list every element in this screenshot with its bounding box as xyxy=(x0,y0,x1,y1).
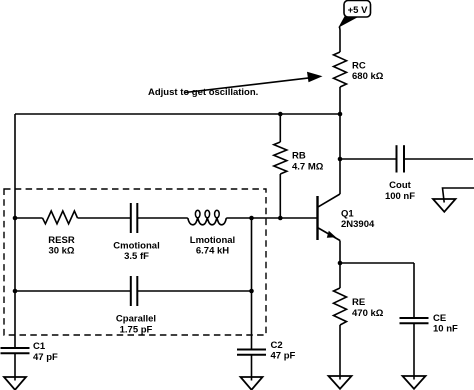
svg-text:47 pF: 47 pF xyxy=(271,351,296,362)
svg-text:RE: RE xyxy=(352,297,365,308)
svg-text:+5 V: +5 V xyxy=(348,5,368,16)
ground (CE) xyxy=(403,376,426,389)
power flag +5V xyxy=(340,1,371,27)
node: C2 branch xyxy=(249,216,254,221)
svg-text:4.7 MΩ: 4.7 MΩ xyxy=(292,161,324,172)
wire: left vertical xyxy=(14,114,16,348)
ground (C1) xyxy=(4,377,26,390)
svg-text:680 kΩ: 680 kΩ xyxy=(352,71,384,82)
capacitor C2 xyxy=(237,340,296,381)
node: crystal left top xyxy=(13,216,18,221)
svg-text:100 nF: 100 nF xyxy=(385,191,415,202)
transistor Q1 2N3904 xyxy=(318,194,375,241)
node: RB bottom xyxy=(278,216,283,221)
svg-text:CE: CE xyxy=(433,313,446,324)
svg-text:Lmotional: Lmotional xyxy=(190,235,235,246)
svg-text:6.74 kH: 6.74 kH xyxy=(196,246,229,257)
svg-text:C2: C2 xyxy=(271,340,283,351)
wire: base / series branch xyxy=(15,217,43,219)
svg-text:C1: C1 xyxy=(33,341,46,352)
annotation arrow: Adjust to get oscillation. xyxy=(148,72,323,98)
svg-text:Q1: Q1 xyxy=(341,208,354,219)
resistor RB xyxy=(274,114,324,218)
svg-text:RESR: RESR xyxy=(48,235,75,246)
node: parallel right xyxy=(249,289,254,294)
svg-text:3.5 fF: 3.5 fF xyxy=(124,251,149,262)
svg-text:470 kΩ: 470 kΩ xyxy=(352,308,384,319)
capacitor C1 xyxy=(1,341,59,380)
wire: top rail xyxy=(15,113,340,115)
node: Cout junction xyxy=(338,157,343,162)
dashed crystal box xyxy=(4,189,266,335)
node: parallel left xyxy=(13,289,18,294)
svg-text:RB: RB xyxy=(292,151,306,162)
resistor RE xyxy=(334,263,384,380)
svg-text:RC: RC xyxy=(352,60,366,71)
svg-text:Cout: Cout xyxy=(389,180,411,191)
wire: emitter node to RE and CE xyxy=(340,262,414,264)
ground (top right) xyxy=(433,188,474,212)
capacitor Cparallel xyxy=(116,276,156,335)
ground (RE) xyxy=(329,376,352,389)
resistor RESR xyxy=(43,211,78,257)
resistor RC xyxy=(334,52,384,87)
node: RB top junction xyxy=(278,112,283,117)
svg-text:10 nF: 10 nF xyxy=(433,324,458,335)
svg-text:Cmotional: Cmotional xyxy=(113,240,159,251)
capacitor Cout xyxy=(385,145,473,202)
wire: parallel branch xyxy=(15,290,131,292)
svg-text:Adjust to get oscillation.: Adjust to get oscillation. xyxy=(148,87,258,98)
wire: right vertical to C2 xyxy=(251,218,253,350)
wire: RC bottom to collector xyxy=(339,87,341,194)
svg-text:30 kΩ: 30 kΩ xyxy=(48,246,74,257)
capacitor CE xyxy=(400,313,459,380)
wire: emitter down xyxy=(339,241,341,264)
svg-text:2N3904: 2N3904 xyxy=(341,219,375,230)
node: RC bottom junction xyxy=(338,112,343,117)
capacitor Cmotional xyxy=(113,203,159,262)
wire: +5V flag to RC top xyxy=(339,27,342,53)
svg-text:1.75 pF: 1.75 pF xyxy=(120,324,153,335)
ground (C2) xyxy=(241,377,263,390)
node: emitter junction xyxy=(338,261,343,266)
inductor Lmotional xyxy=(188,210,235,256)
wire: collector to Cout xyxy=(340,158,397,160)
svg-text:47 pF: 47 pF xyxy=(33,352,58,363)
svg-text:Cparallel: Cparallel xyxy=(116,314,156,325)
